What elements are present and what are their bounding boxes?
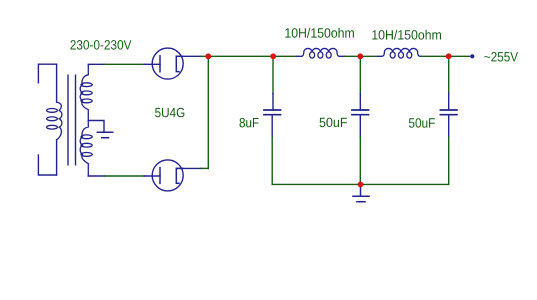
wire bottom rail [272, 183, 449, 185]
junction node E (ground rail) [358, 182, 364, 188]
wire L1 to node B [345, 55, 378, 57]
capacitor C1 bottom lead [271, 115, 273, 137]
junction node C (first 50uF tap) [357, 53, 363, 59]
rectifier U1a cathode [176, 56, 183, 71]
wire into bottom anode [144, 175, 160, 177]
capacitor C3 50uF top lead [448, 56, 450, 93]
label 230-0-230V [70, 40, 131, 50]
inductor L1 10H/150ohm [297, 48, 345, 58]
label 5U4G [155, 108, 184, 118]
rectifier U1a envelope (5U4G top diode) [152, 48, 183, 79]
capacitor C2 bottom lead [359, 115, 361, 137]
junction node B (8uF tap) [270, 53, 276, 59]
transformer T1 primary bottom lead [38, 155, 56, 175]
capacitor C3 bottom lead [448, 115, 450, 137]
label 8uF [240, 118, 259, 128]
label 50uF second [409, 118, 435, 128]
rectifier U1a output lead [176, 55, 201, 57]
inductor L2 10H/150ohm [378, 48, 422, 58]
capacitor C2 50uF top lead [359, 56, 361, 93]
rectifier U1b plate [159, 168, 161, 184]
wire secondary top net [104, 63, 144, 65]
capacitor C1 8uF top lead [272, 56, 274, 93]
transformer T1 primary bottom wire [56, 140, 58, 175]
wire secondary top to rectifier (blue stubs) [88, 63, 104, 65]
ground (bottom rail) bars [353, 196, 369, 202]
transformer T1 primary top wire [56, 64, 58, 102]
wire top output to node A [201, 55, 297, 57]
wire bottom output to down leg [201, 167, 208, 169]
wire node A down leg [207, 56, 209, 168]
ground (bottom rail) stem [360, 186, 362, 196]
label ~255V [484, 52, 518, 62]
transformer T1 primary top lead [38, 64, 56, 83]
ground (center tap) [97, 132, 112, 138]
label 10H/150ohm first [285, 28, 354, 38]
junction node A [205, 53, 211, 59]
rectifier U1b output lead [176, 167, 201, 169]
wire L2 to output [421, 55, 469, 57]
wire secondary bottom stub [88, 175, 105, 177]
transformer T1 core [68, 75, 76, 165]
transformer T1 secondary lower winding [80, 121, 92, 177]
label 10H/150ohm second [372, 30, 441, 40]
rectifier U1b cathode [176, 168, 183, 183]
label 50uF first [320, 118, 348, 128]
junction node D (second 50uF tap) [446, 53, 452, 59]
wire into top anode [144, 63, 160, 65]
transformer T1 center tap wire [88, 121, 104, 132]
rectifier U1a plate [159, 56, 161, 72]
capacitor C3 plates [440, 110, 457, 115]
rectifier U1b envelope (5U4G bottom diode) [152, 160, 183, 191]
capacitor C2 plates [352, 110, 369, 115]
output terminal dot [470, 54, 474, 58]
wire secondary bottom net [105, 175, 145, 177]
transformer T1 primary winding [47, 102, 62, 140]
capacitor C1 plates [264, 110, 281, 115]
transformer T1 secondary upper winding [80, 65, 92, 121]
